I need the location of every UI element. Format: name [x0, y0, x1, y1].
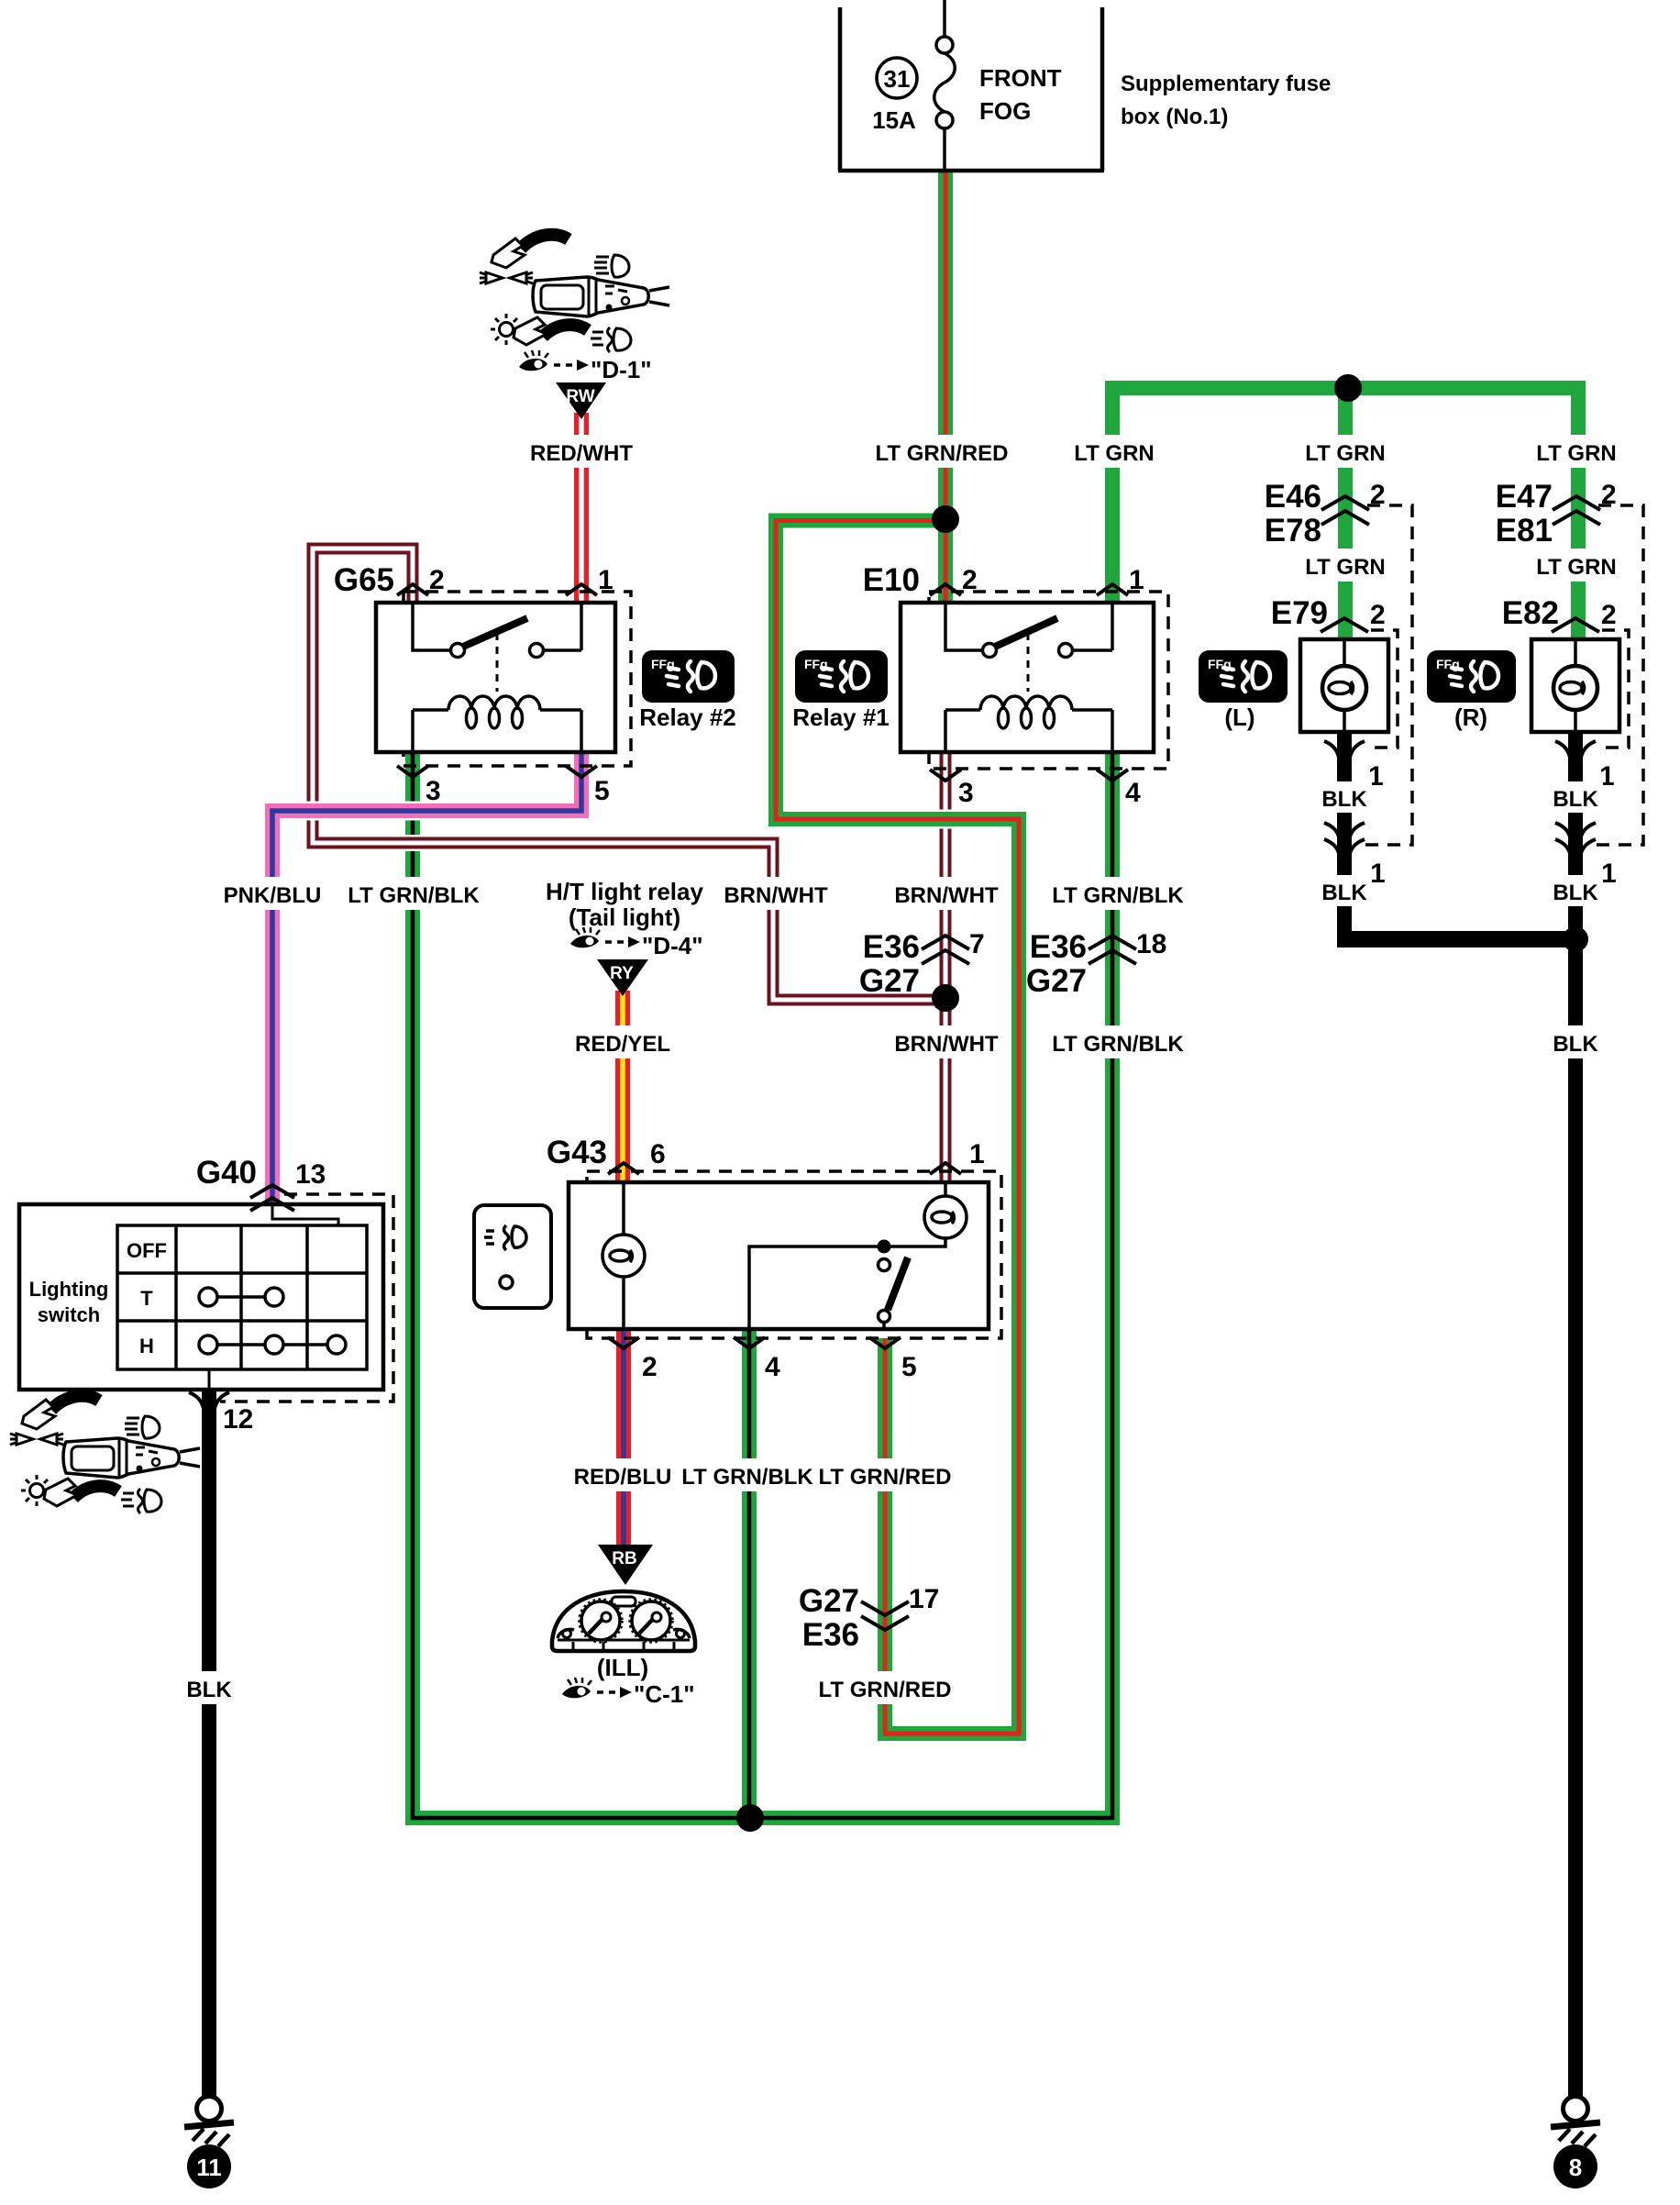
connector G27/E36 pin 17 on LT GRN/RED	[799, 1583, 940, 1653]
svg-text:BRN/WHT: BRN/WHT	[894, 883, 999, 908]
junction dot LT GRN/RED at fuse feed	[932, 505, 959, 533]
pin 1 chevron E10	[1097, 584, 1128, 595]
eye C-1	[562, 1678, 632, 1698]
pin 12 fork G40	[189, 1392, 229, 1413]
svg-text:1: 1	[1129, 565, 1144, 595]
wire label LT GRN (E47 branch)	[1536, 435, 1617, 468]
svg-text:LT GRN: LT GRN	[1074, 441, 1155, 466]
connector E36/G27 pin 7 on BRN/WHT	[859, 929, 985, 999]
wire label BLK (E82)	[1550, 781, 1603, 813]
svg-text:12: 12	[223, 1404, 253, 1435]
pin 4 chevron E10	[1097, 770, 1128, 781]
svg-text:T: T	[140, 1287, 153, 1310]
svg-text:LT GRN/RED: LT GRN/RED	[819, 1678, 952, 1702]
svg-text:G65: G65	[334, 562, 394, 598]
svg-text:E36: E36	[863, 929, 920, 965]
relay icon Relay #1	[792, 650, 890, 731]
svg-text:G27: G27	[859, 963, 920, 999]
dashed bracket E79 connector group	[1366, 630, 1398, 748]
fog lamp E82 (R)	[1502, 595, 1619, 732]
wire label LT GRN (E10 pin1)	[1074, 435, 1155, 468]
svg-text:LT GRN: LT GRN	[1305, 441, 1386, 466]
svg-text:LT GRN: LT GRN	[1536, 555, 1617, 580]
connector triangle RW	[556, 382, 606, 419]
svg-text:BLK: BLK	[186, 1678, 232, 1702]
wire RED/BLU: G43 pin2 down to RB triangle	[616, 1329, 631, 1550]
svg-text:E47: E47	[1496, 479, 1553, 515]
svg-text:G43: G43	[547, 1135, 607, 1170]
junction dot LT GRN/BLK bottom	[736, 1804, 764, 1832]
svg-text:2: 2	[1601, 480, 1617, 510]
wire BLK: down to ground 8	[1568, 939, 1583, 2097]
fog light switch G43	[474, 1135, 1001, 1382]
wire label PNK/BLU	[224, 877, 322, 910]
svg-text:"C-1": "C-1"	[634, 1680, 695, 1708]
svg-text:18: 18	[1136, 929, 1166, 959]
svg-text:11: 11	[196, 2154, 222, 2181]
svg-text:2: 2	[1601, 600, 1617, 630]
pin 2 chevron G43	[608, 1337, 639, 1348]
svg-text:Lighting: Lighting	[29, 1278, 109, 1301]
wire label BLK (right main)	[1550, 1025, 1603, 1058]
pin 1 chevron G65	[566, 584, 597, 595]
svg-text:13: 13	[295, 1159, 326, 1190]
svg-text:H: H	[139, 1335, 154, 1357]
pin 1 chevron G43	[930, 1163, 961, 1174]
svg-text:3: 3	[426, 776, 441, 806]
svg-text:Relay #1: Relay #1	[792, 704, 890, 731]
svg-text:2: 2	[642, 1352, 658, 1382]
svg-text:switch: switch	[38, 1303, 100, 1326]
instrument cluster icon (ILL)	[552, 1591, 695, 1651]
svg-text:1: 1	[1370, 859, 1386, 889]
wire label RED/BLU	[574, 1458, 672, 1491]
pin 4 chevron G43	[734, 1337, 765, 1348]
svg-text:LT GRN/RED: LT GRN/RED	[819, 1465, 952, 1490]
fork connector pin1 below E79	[1324, 741, 1384, 792]
pin 2 chevron E79	[1321, 618, 1368, 632]
wire label LT GRN/RED (bottom)	[819, 1671, 952, 1704]
dashed group bracket E47/E81 connector group (right lamp)	[1596, 505, 1643, 845]
connector triangle RB	[598, 1545, 653, 1585]
double fork connector below E82	[1555, 823, 1617, 889]
wire PNK/BLU: G65 pin5 down, left, down to G40 pin13	[272, 752, 581, 1204]
svg-text:2: 2	[1370, 600, 1386, 630]
svg-text:(ILL): (ILL)	[597, 1654, 648, 1681]
wire label BRN/WHT (below junction)	[894, 1025, 999, 1058]
pin 5 chevron G65	[566, 766, 597, 777]
svg-text:"D-1": "D-1"	[591, 356, 652, 383]
svg-text:BRN/WHT: BRN/WHT	[894, 1032, 999, 1057]
svg-text:RED/YEL: RED/YEL	[575, 1032, 670, 1057]
svg-text:4: 4	[765, 1352, 780, 1382]
connector E36/G27 pin 18 on LT GRN/BLK	[1026, 929, 1167, 999]
svg-text:BRN/WHT: BRN/WHT	[724, 883, 828, 908]
svg-text:3: 3	[958, 778, 974, 808]
svg-text:Supplementary fuse: Supplementary fuse	[1121, 72, 1331, 96]
wire LT GRN/RED net: fuse box down to E10 pin2	[938, 171, 953, 603]
svg-text:2: 2	[1370, 480, 1386, 510]
svg-text:BLK: BLK	[1553, 1032, 1598, 1057]
relay G65 (Relay #2)	[334, 562, 631, 806]
pin 3 chevron E10	[930, 770, 961, 781]
wire label LT GRN/RED (G43 pin5)	[819, 1458, 952, 1491]
pin 3 chevron G65	[397, 766, 428, 777]
svg-text:PNK/BLU: PNK/BLU	[224, 883, 322, 908]
connector E46/E78 inline (pin 2)	[1265, 479, 1386, 548]
fog icon (L)	[1199, 650, 1288, 731]
svg-text:LT GRN/BLK: LT GRN/BLK	[1052, 1032, 1184, 1057]
ground 8	[1551, 2097, 1600, 2189]
wire label LT GRN/BLK (G65 pin3)	[348, 877, 480, 910]
wire label BRN/WHT (E10 pin3)	[894, 877, 999, 910]
relay icon Relay #2	[639, 650, 736, 731]
svg-text:LT GRN/BLK: LT GRN/BLK	[1052, 883, 1184, 908]
svg-text:1: 1	[969, 1139, 985, 1169]
LABELS_START	[185, 435, 1617, 1704]
wire LT GRN/BLK net: G65 pin3 down, across bottom, up to E10 pin4; branch G43 pin4	[413, 752, 1112, 1818]
pin 2 chevron G65	[397, 584, 428, 595]
supplementary fuse box No.1	[838, 0, 1104, 171]
svg-text:BLK: BLK	[1553, 787, 1598, 812]
svg-text:(R): (R)	[1454, 704, 1487, 731]
svg-text:LT GRN/BLK: LT GRN/BLK	[681, 1465, 813, 1490]
svg-text:2: 2	[429, 565, 445, 595]
fog switch indicator icon	[474, 1205, 551, 1308]
wire label LT GRN (E46 branch)	[1305, 435, 1386, 468]
wire label BLK (E79)	[1319, 781, 1372, 813]
eye D-4	[570, 927, 640, 947]
wire label RED/YEL	[575, 1025, 670, 1058]
fog icon (R)	[1427, 650, 1516, 731]
svg-text:RY: RY	[610, 964, 634, 983]
wire BLK: G40 pin12 down to ground 11	[202, 1390, 216, 2097]
svg-text:(Tail light): (Tail light)	[569, 903, 680, 931]
svg-text:E36: E36	[1030, 929, 1087, 965]
svg-text:E36: E36	[802, 1617, 859, 1653]
svg-text:(L): (L)	[1224, 704, 1254, 731]
fog lamp E79 (L)	[1271, 595, 1388, 732]
svg-text:4: 4	[1125, 778, 1141, 808]
connector E47/E81 inline (pin 2)	[1496, 479, 1617, 548]
svg-text:17: 17	[909, 1584, 939, 1614]
pin 13 double chevron G40	[250, 1185, 294, 1211]
svg-text:LT GRN/BLK: LT GRN/BLK	[348, 883, 480, 908]
ground 11	[184, 2097, 234, 2189]
combination switch icon (top, at D-1)	[480, 235, 669, 352]
svg-text:1: 1	[1601, 859, 1617, 889]
combination switch icon (lower, at G40)	[10, 1396, 200, 1513]
wire label LT GRN (E79 branch)	[1305, 548, 1386, 582]
wire label BLK (E82 lower)	[1550, 875, 1603, 906]
svg-text:31: 31	[884, 65, 911, 93]
wire BLK: E82 lamp down	[1568, 732, 1583, 939]
dashed bracket E82 connector group	[1597, 630, 1629, 748]
double fork connector below E79	[1324, 823, 1386, 889]
connector triangle RY	[597, 959, 648, 996]
eye D-1	[519, 350, 589, 371]
pin 2 chevron E82	[1552, 618, 1599, 632]
pin 6 chevron G43	[608, 1163, 639, 1174]
wire BLK: horizontal bar joining lamps grounds	[1337, 931, 1575, 947]
svg-text:RW: RW	[566, 387, 594, 406]
junction dot BRN/WHT	[932, 984, 959, 1012]
svg-text:E10: E10	[863, 562, 920, 598]
svg-text:G40: G40	[196, 1155, 257, 1191]
pin 2 chevron E10	[930, 584, 961, 595]
wire label LT GRN/RED (top)	[876, 435, 1009, 468]
svg-text:2: 2	[962, 565, 978, 595]
svg-text:G27: G27	[1026, 963, 1087, 999]
svg-text:E81: E81	[1496, 513, 1553, 548]
fork connector pin1 below E82	[1555, 741, 1615, 792]
svg-text:1: 1	[598, 565, 613, 595]
svg-text:box (No.1): box (No.1)	[1121, 105, 1228, 129]
svg-text:BLK: BLK	[1321, 787, 1367, 812]
wire label LT GRN/BLK (E10 pin4)	[1052, 877, 1184, 910]
relay E10 (Relay #1)	[863, 562, 1168, 808]
svg-text:E46: E46	[1265, 479, 1321, 515]
wire label LT GRN (E82 branch)	[1536, 548, 1617, 582]
svg-text:6: 6	[650, 1139, 666, 1169]
wire label BLK (G40 pin12 wire)	[185, 1671, 233, 1704]
junction dot LT GRN top right	[1334, 374, 1362, 402]
svg-text:LT GRN: LT GRN	[1536, 441, 1617, 466]
lighting switch G40	[19, 1155, 393, 1435]
svg-text:8: 8	[1569, 2154, 1582, 2181]
wire BLK: E79 lamp down	[1337, 732, 1352, 947]
fuse 31 15A FRONT FOG	[877, 37, 955, 128]
wire RED/YEL: RY triangle to G43 pin6	[615, 991, 630, 1182]
pin 5 chevron G43	[869, 1337, 901, 1348]
svg-text:OFF: OFF	[127, 1239, 167, 1262]
junction dot BLK right	[1563, 926, 1588, 952]
svg-text:LT GRN/RED: LT GRN/RED	[876, 441, 1009, 466]
wire BRN/WHT net: G65 pin2 loop to junction; E10 pin3 down to G43 pin1	[313, 548, 945, 1182]
svg-text:7: 7	[969, 929, 985, 959]
wire label BLK (E79 lower)	[1319, 875, 1372, 906]
dashed group bracket E46/E78 connector group (left lamp)	[1365, 505, 1643, 845]
svg-text:15A: 15A	[872, 106, 916, 134]
svg-text:"D-4": "D-4"	[642, 932, 703, 959]
svg-text:G27: G27	[799, 1583, 859, 1619]
wire label LT GRN/BLK (G43 pin4)	[681, 1458, 813, 1491]
svg-text:E78: E78	[1265, 513, 1321, 548]
wire label BRN/WHT (left)	[724, 877, 828, 910]
WIRES_START	[209, 171, 1643, 2097]
svg-text:5: 5	[901, 1352, 917, 1382]
svg-text:FRONT: FRONT	[979, 64, 1062, 92]
svg-text:5: 5	[594, 776, 610, 806]
wire label LT GRN/BLK (E10 pin4 lower)	[1052, 1025, 1184, 1058]
svg-text:RED/WHT: RED/WHT	[530, 441, 633, 466]
svg-text:Relay #2: Relay #2	[639, 704, 736, 731]
svg-text:FOG: FOG	[979, 97, 1031, 125]
svg-text:RB: RB	[612, 1549, 636, 1568]
svg-text:RED/BLU: RED/BLU	[574, 1465, 672, 1490]
svg-text:H/T light relay: H/T light relay	[546, 878, 703, 905]
wire LT GRN/RED branch: junction left, down, right, down, U-turn to G43 pin5	[776, 521, 1019, 1734]
svg-text:BLK: BLK	[1553, 881, 1598, 905]
svg-text:E79: E79	[1271, 595, 1328, 631]
svg-text:BLK: BLK	[1321, 881, 1367, 905]
wire LT GRN net: E10 pin1 up, across top right, down to E79 / E82 lamps	[1112, 388, 1578, 639]
svg-text:LT GRN: LT GRN	[1305, 555, 1386, 580]
wire RED/WHT: RW triangle to G65 pin1	[574, 413, 589, 603]
svg-text:E82: E82	[1502, 595, 1559, 631]
wire label RED/WHT	[530, 435, 633, 468]
